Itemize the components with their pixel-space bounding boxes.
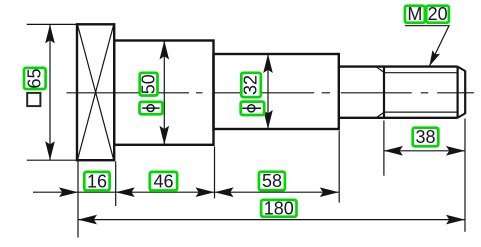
svg-text:16: 16 [87,171,107,191]
svg-text:50: 50 [139,74,159,94]
svg-text:20: 20 [428,4,448,24]
dim 58 arrow left [215,187,234,197]
leader arrowhead [429,50,440,66]
dim phi32 arrow down [263,110,273,129]
leader line M20 [405,26,449,67]
shank neck outline [339,67,384,118]
dim 46 arrow left [116,187,135,197]
label 65 [24,68,46,89]
dim 180 arrow right [446,215,465,225]
label 180 [261,198,296,218]
dim 65 arrow down [45,141,55,160]
right extension line (shared 38 and 180) [464,119,466,232]
label 16 [84,171,109,191]
chamfer diagonal top [458,67,466,71]
dim phi50 arrow down [160,126,170,145]
square section outline [77,24,114,160]
thread outline [384,67,458,118]
label 46 [150,171,177,191]
dim 180 arrow left [78,215,97,225]
row1 extension line at 16/46 step [115,162,117,207]
label 32 [241,73,261,97]
dim 58 arrow right [320,187,339,197]
dim 38 line [384,150,465,152]
svg-text:58: 58 [262,171,282,191]
dim 65 extension line top [27,23,77,25]
chamfer diagonal bottom [458,113,466,117]
label 20 [426,4,449,24]
svg-text:38: 38 [415,127,435,147]
label 38 [413,127,439,147]
square symbol [27,93,40,106]
dim 38 arrow right [446,146,465,156]
dim phi32 arrow up [263,54,273,73]
dim 65 arrow up [45,24,55,43]
left extension line (shared 16 and 180) [77,160,79,237]
svg-text:65: 65 [25,68,45,88]
row1 extension line at 58 end [338,131,340,203]
centerline [67,92,474,94]
dim 65 extension line bottom [27,159,77,161]
dim 38 arrow left [384,146,403,156]
dim phi32 line [267,54,269,129]
dim 180 line [78,219,465,221]
thread end chamfer line [457,67,459,118]
label 50 [139,73,159,96]
svg-text:M: M [407,4,422,24]
row1 dimension line 16-46-58 [33,191,339,193]
thread runout diagonal top [377,67,385,73]
cylinder phi50 outline [114,41,213,145]
thread full-length boundary [383,67,385,118]
dim 46 arrow right [196,187,215,197]
dim phi50 line [163,41,165,145]
thread root line top [384,72,459,74]
dim phi50 arrow up [160,41,170,60]
X cross diagonal 2 [78,25,114,160]
row1 extension line at 46/58 step [214,147,216,199]
label M [405,4,425,24]
shaft end face [464,71,466,114]
svg-text:46: 46 [153,171,173,191]
dim 65 line [49,24,51,160]
svg-text:32: 32 [241,75,261,95]
label phi of 50 [140,102,163,114]
X cross diagonal 1 [78,25,114,160]
label phi of 32 [241,102,265,115]
dim 16 outside arrow left [59,187,78,197]
thread root line bottom [384,111,459,113]
thread runout diagonal bottom [377,112,385,117]
label 58 [259,171,285,191]
dim 38 extension line left [383,121,385,176]
svg-text:180: 180 [264,198,294,218]
cylinder phi32 outline [214,54,339,129]
